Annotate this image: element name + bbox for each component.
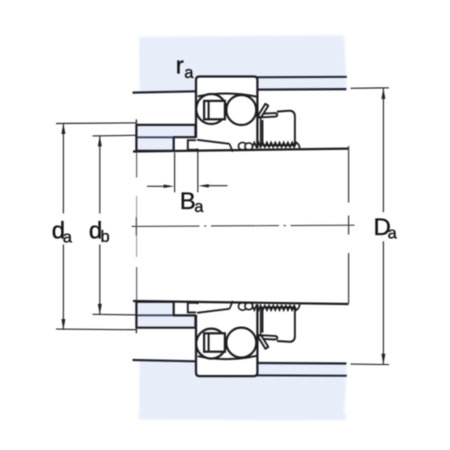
dimension D_a extension top (351, 87, 390, 90)
dimension d_a extension top (56, 122, 136, 125)
svg-text:a: a (184, 64, 194, 82)
svg-text:a: a (194, 198, 204, 216)
d_a arrow bottom (61, 319, 65, 330)
shaft top line (133, 149, 349, 152)
d_b arrow bottom (98, 304, 102, 315)
dimension d_b line (99, 136, 101, 315)
dimension D_a extension bottom (351, 363, 390, 366)
top half section (133, 35, 348, 152)
dimension d_b extension top (93, 134, 137, 137)
dimension D_a line (382, 88, 384, 364)
D_a arrow top (381, 88, 385, 99)
dimension d_a line (62, 123, 64, 329)
d_b arrow top (98, 136, 102, 147)
B_a arrow line right (209, 185, 228, 187)
shaft bottom line (133, 301, 349, 304)
svg-text:a: a (388, 225, 398, 243)
bottom half section (mirror) (133, 301, 348, 418)
dimension d_b extension bottom (93, 313, 137, 316)
svg-text:b: b (101, 228, 110, 246)
B_a arrow line left (147, 185, 165, 187)
dimension B_a extension right (197, 151, 199, 193)
shaft end line (348, 146, 350, 304)
D_a arrow bottom (381, 354, 385, 365)
shaft break line (136, 152, 138, 301)
svg-text:r: r (176, 53, 184, 80)
centerline tick (135, 217, 137, 235)
dimension d_a extension bottom (56, 328, 136, 331)
dimension B_a extension left (174, 153, 176, 193)
centerline (132, 225, 355, 226)
d_a arrow top (61, 123, 65, 134)
bottom housing extra depth (139, 413, 346, 421)
svg-text:a: a (63, 228, 73, 246)
B_a arrow head right (198, 184, 209, 188)
B_a arrow head left (164, 185, 175, 189)
